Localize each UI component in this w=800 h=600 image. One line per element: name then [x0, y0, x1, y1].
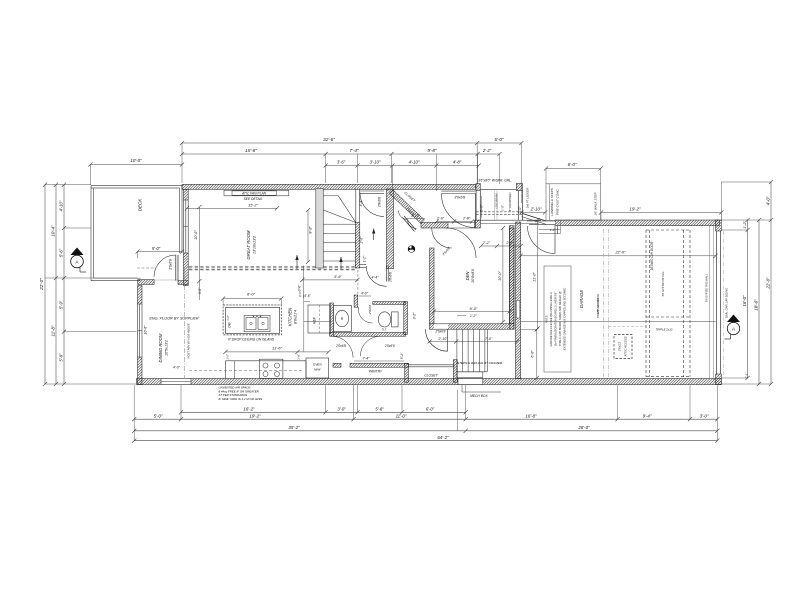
dimension line 10'-0" deck	[91, 164, 183, 166]
garage slab line	[521, 321, 716, 323]
dimension line 35'-2" / 26'-0" bottom row3	[134, 430, 717, 432]
svg-text:2'0x6'8: 2'0x6'8	[335, 344, 346, 348]
hall door leaf	[385, 265, 387, 281]
svg-text:3'-2": 3'-2"	[413, 312, 417, 320]
hall door opening at top	[360, 190, 384, 192]
svg-text:3'-6": 3'-6"	[298, 284, 302, 291]
svg-text:6'-0": 6'-0"	[426, 407, 435, 412]
svg-text:A: A	[732, 327, 735, 332]
garage left / den firewall	[516, 222, 521, 379]
svg-text:5/8" GYP BD: 5/8" GYP BD	[596, 298, 600, 314]
dimension line 10'-4" / 11'-8" left	[55, 185, 57, 384]
svg-text:TRIPLE 2x10: TRIPLE 2x10	[656, 327, 673, 331]
left extension lines	[45, 184, 91, 186]
svg-text:6'-0": 6'-0"	[568, 162, 577, 167]
great room dashed beam line	[189, 266, 356, 268]
svg-text:64'-2": 64'-2"	[437, 435, 449, 440]
porch bottom edge lines	[476, 219, 541, 221]
dimension 9'-0" den	[434, 311, 510, 313]
svg-text:STEPS & RAILING BY FRAMER: STEPS & RAILING BY FRAMER	[457, 361, 503, 365]
svg-text:5'-2": 5'-2"	[400, 352, 404, 359]
svg-text:4'-0": 4'-0"	[765, 196, 770, 205]
extension lines top dims	[181, 143, 183, 183]
kitchen counter edge	[226, 360, 307, 362]
front door swing arc	[441, 194, 475, 228]
svg-text:5/8 GYP BD THIS WALL: 5/8 GYP BD THIS WALL	[705, 273, 709, 302]
svg-text:32'-6": 32'-6"	[323, 137, 335, 142]
dimension 11'-6" kitchen	[226, 351, 329, 353]
svg-text:TLT: TLT	[382, 327, 387, 331]
svg-text:MECH BOX: MECH BOX	[470, 394, 488, 398]
svg-text:5/8 GYP BD ON CLG: 5/8 GYP BD ON CLG	[661, 272, 665, 297]
svg-text:OVEN: OVEN	[313, 363, 323, 367]
den right wall	[510, 226, 515, 324]
svg-text:10'-0": 10'-0"	[498, 271, 502, 281]
porch top corner posts	[476, 184, 480, 191]
svg-text:2'6x6'8: 2'6x6'8	[389, 272, 393, 283]
svg-text:9'-8": 9'-8"	[427, 148, 437, 153]
stair up arrow	[340, 257, 342, 269]
svg-text:2'-2": 2'-2"	[482, 241, 491, 245]
svg-text:PANTRY: PANTRY	[369, 370, 383, 374]
elevation marker A left	[71, 248, 84, 256]
dimension 5'-6" stairs	[302, 279, 357, 281]
svg-text:DECK: DECK	[138, 198, 143, 212]
svg-text:2'0x6'8: 2'0x6'8	[384, 344, 395, 348]
pantry top wall	[333, 363, 341, 367]
powder entry door arc	[358, 309, 372, 323]
svg-text:11'-8": 11'-8"	[51, 325, 56, 336]
svg-text:16'-0": 16'-0"	[742, 295, 747, 307]
powder right wall stub	[404, 302, 408, 335]
dimension 10'-6" great room rotated	[198, 207, 200, 300]
svg-text:5'-6": 5'-6"	[304, 294, 311, 298]
svg-text:3'-6": 3'-6"	[337, 159, 346, 164]
deck outline double line	[91, 185, 182, 187]
svg-text:19'-2": 19'-2"	[629, 207, 641, 212]
smoke detector symbol	[408, 246, 415, 253]
svg-text:18'-0": 18'-0"	[753, 299, 758, 311]
svg-text:2'-6": 2'-6"	[436, 217, 445, 221]
stair wall dashed continuation	[357, 270, 359, 295]
refrigerator	[308, 305, 331, 333]
hall up arrow	[373, 229, 375, 241]
svg-text:4" DROPPED: 4" DROPPED	[508, 192, 512, 212]
den door swing arcs	[446, 228, 476, 258]
svg-text:ENG. FLOOR BY SUPPLIER: ENG. FLOOR BY SUPPLIER	[149, 317, 199, 321]
deck door leaf and swing arc	[175, 255, 177, 281]
dimension line 16'-2" 3'-0" 5'-8" 6'-0" bottom row1	[181, 411, 466, 413]
svg-text:EXTENDED GARAGE W/S CAPPED AND: EXTENDED GARAGE W/S CAPPED AND SECURED	[563, 288, 567, 351]
porch ledger beam line	[494, 191, 496, 221]
svg-text:7'-4": 7'-4"	[362, 356, 370, 360]
svg-text:2'-10": 2'-10"	[437, 337, 448, 341]
svg-text:PRE-CAST CONC: PRE-CAST CONC	[555, 188, 559, 214]
corner closet diagonal wall	[389, 190, 424, 224]
svg-text:1'-2": 1'-2"	[470, 314, 477, 318]
steps at porch corner	[539, 229, 561, 231]
svg-text:4'-10": 4'-10"	[409, 159, 420, 164]
svg-text:11'-0": 11'-0"	[396, 414, 407, 419]
bottom extension lines	[133, 385, 135, 441]
svg-text:2hr FINISH (SCRATCH BOARD) 1 L: 2hr FINISH (SCRATCH BOARD) 1 LAYER 5/8"	[554, 291, 558, 347]
garage right exterior wall with overhead door opening	[716, 220, 722, 231]
svg-text:3'-0": 3'-0"	[700, 414, 709, 419]
front door threshold	[441, 190, 475, 192]
angled wall porch to garage	[523, 214, 547, 222]
svg-text:22'-0": 22'-0"	[765, 277, 770, 290]
dimension 11'-0" rotated	[537, 220, 539, 329]
dimension line 19'-2" garage top	[601, 212, 721, 214]
svg-text:5'-6": 5'-6"	[59, 248, 64, 257]
overhead door dashed outline	[645, 230, 647, 377]
svg-text:3'-10": 3'-10"	[370, 159, 381, 164]
svg-text:ATTIC ACCESS: ATTIC ACCESS	[624, 336, 628, 357]
svg-text:13'10x13'2: 13'10x13'2	[253, 235, 257, 254]
dimension 9'-8" stairs rotated	[307, 210, 309, 262]
svg-text:SEE DETAIL: SEE DETAIL	[244, 197, 263, 201]
hall door swing arc	[360, 193, 384, 217]
svg-text:3'-0": 3'-0"	[198, 287, 202, 294]
powder bottom wall	[330, 333, 406, 337]
svg-text:1'-1": 1'-1"	[745, 372, 749, 379]
left wall between deck and great room with window	[184, 189, 189, 200]
porch bottom left corner wall	[475, 220, 481, 228]
svg-text:10'-0": 10'-0"	[130, 158, 142, 163]
dining room left exterior wall with window	[138, 286, 143, 304]
dimension 1'-2" den corner	[457, 315, 466, 317]
porch columns double line	[475, 191, 477, 221]
svg-text:5'-0": 5'-0"	[154, 414, 163, 419]
closet hall door swing arc	[426, 329, 448, 351]
top exterior wall great room to entry	[182, 184, 476, 189]
garage notes box	[544, 266, 571, 372]
hall bottom wall lines and door	[360, 263, 367, 265]
attic access dashed box	[614, 335, 632, 359]
great room right wall upper	[387, 189, 394, 269]
svg-text:16'-2": 16'-2"	[243, 407, 255, 412]
powder sink basin	[335, 310, 348, 326]
svg-text:SEAL GAP, LAP SIDING: SEAL GAP, LAP SIDING	[725, 287, 729, 318]
svg-text:2'-0": 2'-0"	[518, 206, 522, 215]
svg-text:REF: REF	[313, 316, 317, 324]
svg-text:5'-8": 5'-8"	[375, 407, 384, 412]
dimension line 4'-10" 5'-6" 5'-9" 5'-9" left	[63, 185, 65, 384]
toilet tank	[392, 312, 399, 327]
basement stair landing rect	[457, 372, 483, 378]
svg-text:10'0x9'0: 10'0x9'0	[471, 268, 475, 283]
powder top wall	[373, 302, 406, 305]
dimension line 4'-0" / 22'-0" right overall	[770, 182, 772, 384]
stair wall stub at powder room	[354, 295, 358, 307]
svg-text:11'-0": 11'-0"	[532, 272, 536, 282]
svg-text:KITCHEN: KITCHEN	[288, 307, 293, 326]
svg-text:5'-6": 5'-6"	[334, 275, 342, 279]
stair side half wall grey band	[316, 189, 324, 269]
dimension 2'-10" porch-garage	[521, 212, 545, 214]
svg-text:16'-8": 16'-8"	[525, 414, 537, 419]
svg-text:2'-10": 2'-10"	[530, 206, 542, 211]
range/stove	[260, 359, 283, 378]
svg-text:8'0x21'4: 8'0x21'4	[294, 310, 298, 324]
svg-text:9'-0": 9'-0"	[470, 306, 479, 311]
svg-text:2'6x6'8: 2'6x6'8	[434, 329, 445, 333]
svg-text:LANDING & STEPS: LANDING & STEPS	[550, 187, 554, 216]
basement stairs treads	[456, 329, 458, 372]
dimension 2'-2" 2'-6" entry lower	[481, 245, 521, 247]
svg-text:16" WALK STEP: 16" WALK STEP	[594, 192, 598, 216]
svg-text:9'-4": 9'-4"	[643, 414, 652, 419]
dimension line 18'-0" right	[758, 220, 760, 384]
dimension 5'-0" deck door	[138, 251, 182, 253]
stair right wall upper thin	[355, 189, 357, 223]
svg-text:2'-8": 2'-8"	[462, 217, 471, 221]
svg-text:ATIC FAN PLAN: ATIC FAN PLAN	[241, 192, 267, 196]
svg-text:GARAGE WALLS & CEILING FINISH: GARAGE WALLS & CEILING FINISH LEVEL 2,	[549, 291, 553, 346]
oven microwave cabinet	[306, 358, 329, 378]
svg-text:2'-6": 2'-6"	[360, 236, 364, 245]
toilet bowl	[378, 312, 390, 327]
svg-text:1'-0": 1'-0"	[501, 204, 505, 211]
svg-text:IF SIDE YARD IS 1.2 M OR LESS: IF SIDE YARD IS 1.2 M OR LESS	[219, 397, 263, 401]
svg-text:22'-0": 22'-0"	[614, 250, 626, 255]
garage door opening to landing with header	[522, 221, 555, 225]
svg-text:2'6x2'2: 2'6x2'2	[618, 342, 622, 353]
firewall niche	[516, 301, 520, 319]
dimension line 1'-2" / 16'-0" right	[747, 220, 749, 378]
stair treads	[323, 195, 338, 197]
stair right wall lower	[355, 223, 360, 269]
post above line	[184, 267, 186, 379]
svg-text:11'-6": 11'-6"	[272, 346, 282, 351]
svg-text:6'-0": 6'-0"	[247, 292, 256, 297]
deck door header dashed	[137, 267, 155, 269]
svg-text:35'-2": 35'-2"	[288, 425, 300, 430]
svg-text:5'-9": 5'-9"	[59, 300, 64, 309]
island sink unit	[244, 316, 270, 332]
powder sink counter	[333, 305, 351, 331]
svg-text:NOTE:: NOTE:	[545, 315, 549, 323]
powder left wall	[330, 303, 334, 336]
svg-text:22'-0": 22'-0"	[39, 278, 44, 291]
svg-text:2'8x6'8: 2'8x6'8	[378, 197, 382, 208]
svg-text:4'-0": 4'-0"	[173, 366, 181, 370]
hall door swing arc	[366, 266, 386, 286]
svg-text:1'-2": 1'-2"	[363, 255, 367, 262]
attic fan plan box	[224, 190, 289, 196]
svg-text:DEN: DEN	[465, 271, 470, 281]
dimension 2'-6" 2'-8" entry hall	[437, 221, 472, 223]
kitchen island counter	[226, 307, 280, 333]
deck threshold line	[154, 279, 178, 281]
dimension line 5'-0" 19'-2" 11'-0" 16'-8" 9'-4" 3'-0" bottom row2	[134, 418, 717, 420]
svg-text:3'6"x8'0" W/SPR. GRL.: 3'6"x8'0" W/SPR. GRL.	[478, 179, 512, 183]
svg-text:10'5x13'2: 10'5x13'2	[165, 339, 169, 356]
den bottom wall	[430, 324, 515, 329]
svg-text:GREAT ROOM: GREAT ROOM	[246, 230, 251, 259]
svg-text:3'-0": 3'-0"	[337, 407, 346, 412]
svg-text:TYPE-X GYP BOARD TAPED AND SEA: TYPE-X GYP BOARD TAPED AND SEALED @	[558, 291, 562, 346]
pantry right wall	[405, 363, 409, 382]
closet door swing arc	[399, 211, 408, 220]
svg-text:10'-6": 10'-6"	[194, 230, 198, 240]
svg-text:2x6 PT LEDGER: 2x6 PT LEDGER	[526, 188, 530, 209]
dimension line 32'-6" overall top	[182, 142, 521, 144]
svg-text:M/W: M/W	[314, 368, 321, 372]
dimension 6'-0" basement stairs rotated	[521, 328, 537, 330]
svg-text:10'-4": 10'-4"	[51, 225, 56, 237]
svg-text:CLOSET: CLOSET	[424, 374, 438, 378]
svg-text:5'-0": 5'-0"	[152, 246, 161, 251]
right extension lines	[721, 181, 771, 183]
svg-text:GARAGE: GARAGE	[579, 290, 584, 309]
dimension 3'-10" closet	[406, 218, 425, 220]
pre-cast landing and steps outline	[546, 184, 601, 221]
svg-text:9'-8": 9'-8"	[309, 226, 313, 234]
elevation marker A right	[727, 315, 740, 323]
svg-text:5'-0": 5'-0"	[494, 137, 504, 142]
svg-text:3'-10": 3'-10"	[411, 214, 421, 218]
dimension line 6'-0" landing	[546, 168, 601, 170]
great room arrow	[296, 255, 298, 269]
dimension line 3'-6" 3'-10" 4'-10" 4'-8"	[326, 165, 479, 167]
svg-text:A: A	[75, 260, 78, 265]
dimension 5'-0" porch extension	[481, 196, 483, 218]
svg-text:19'-2": 19'-2"	[249, 414, 261, 419]
svg-text:5'-9": 5'-9"	[59, 353, 64, 362]
wall band at deck bottom / dining top	[138, 280, 154, 285]
svg-text:1'-2": 1'-2"	[743, 221, 747, 229]
svg-text:15'-8": 15'-8"	[245, 148, 257, 153]
garage top exterior wall	[555, 220, 719, 226]
garage jamb dashed grey	[603, 229, 605, 378]
stair winder diagonals	[338, 196, 356, 223]
svg-text:7'-0": 7'-0"	[485, 337, 493, 341]
powder doors to hall below	[332, 336, 354, 358]
svg-text:4'-0": 4'-0"	[361, 292, 369, 296]
porch dropped slab dashed edge	[476, 211, 522, 213]
den bottom door opening	[434, 324, 448, 329]
svg-text:10'-6": 10'-6"	[144, 325, 148, 335]
svg-text:26'-0": 26'-0"	[577, 425, 590, 430]
closet door diagonal leaf	[404, 216, 416, 230]
svg-text:POST ABV W/ HDR ABOVE: POST ABV W/ HDR ABOVE	[187, 323, 191, 358]
dimension line 15'-8" / 7'-4" / 9'-8" / 2'-2"	[182, 153, 500, 155]
dimension 2'-10" / 7'-0"	[430, 341, 517, 343]
svg-text:DINING ROOM: DINING ROOM	[158, 333, 163, 362]
closet top wall line	[408, 364, 454, 366]
closet right wall	[453, 360, 457, 383]
svg-text:6" DROP CEILING ON ISLAND: 6" DROP CEILING ON ISLAND	[228, 338, 275, 342]
svg-text:6'-0": 6'-0"	[531, 350, 535, 358]
svg-text:4'-4": 4'-4"	[372, 276, 380, 280]
seal gap note grey	[723, 231, 725, 375]
svg-text:2'6x6'8: 2'6x6'8	[169, 259, 173, 271]
svg-text:15'-2": 15'-2"	[248, 203, 258, 207]
den top wall	[421, 223, 448, 229]
svg-text:LDG BEAM: LDG BEAM	[495, 193, 499, 209]
svg-text:2'0x6'8: 2'0x6'8	[368, 305, 372, 316]
svg-text:3'0x6'8: 3'0x6'8	[454, 196, 465, 200]
svg-text:7'-4": 7'-4"	[349, 148, 359, 153]
svg-text:2'-2": 2'-2"	[482, 148, 492, 153]
dimension 6'-0" island	[223, 298, 281, 300]
dimension line 64'-2" bottom overall	[134, 440, 717, 442]
dimension 22'-0" garage	[521, 255, 716, 257]
dimension line 22'-0" overall left	[44, 185, 46, 384]
svg-text:4'-10": 4'-10"	[59, 200, 64, 211]
dimension 7'-4" hall	[354, 360, 404, 362]
svg-text:4'-8": 4'-8"	[453, 159, 462, 164]
kitchen corner vertical line	[303, 266, 305, 299]
svg-text:16'0x8'0 O/H DOOR: 16'0x8'0 O/H DOOR	[650, 241, 654, 270]
bottom exterior wall	[137, 379, 722, 385]
window in bottom wall at dining	[161, 379, 191, 385]
dimension 10'-0" den rotated	[502, 228, 504, 322]
kitchen island dashed drop ceiling	[223, 305, 281, 335]
mech box	[458, 379, 483, 385]
door swing arc landing to garage	[528, 226, 556, 254]
den left wall	[430, 248, 435, 324]
